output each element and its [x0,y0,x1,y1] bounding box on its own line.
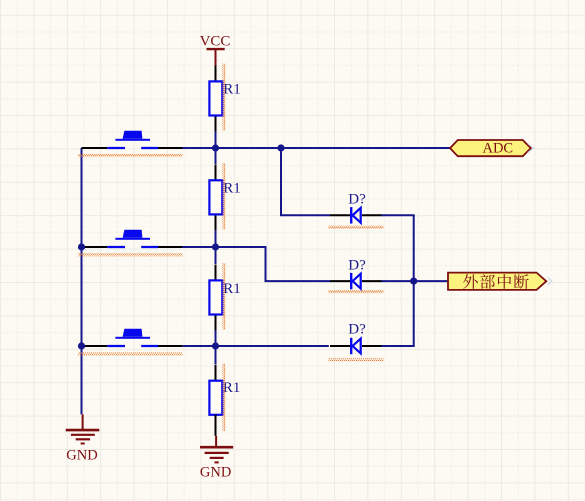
svg-text:VCC: VCC [200,33,231,49]
svg-text:D?: D? [348,322,366,338]
wire right rail (D1 to D3) [413,215,415,346]
push button S? (top) [82,131,216,148]
wire row3 node to R1d top [215,346,217,364]
port ADC [450,140,531,156]
ERC marker at middle diode [328,291,383,294]
svg-text:D?: D? [348,191,366,207]
port ADC direction chevron [528,144,534,153]
ERC marker at top diode [328,226,383,229]
push button S? (middle) [82,230,216,247]
junction row3-mid [212,342,219,349]
wire D2 out to junction [381,280,414,282]
ERC marker at R1 third [222,263,225,330]
junction right-rail [410,278,417,285]
wire row3 net to D3 [216,345,329,347]
svg-text:R1: R1 [223,281,241,297]
junction row2-mid [212,243,219,250]
port 外部中断 direction chevron [548,277,552,285]
diode D? (middle) [330,273,382,289]
wire row2 button to middle rail [158,246,216,248]
power symbol VCC [200,33,231,65]
wire junction to port 外部中断 [414,280,449,282]
ERC marker at R1 top [222,64,225,131]
wire D1 out to right rail [381,214,415,216]
ERC marker at middle button [78,253,183,256]
junction row1-mid [212,144,219,151]
ground GND (bottom) [200,436,233,481]
svg-text:D?: D? [348,257,366,273]
svg-text:GND: GND [200,465,231,481]
ERC marker at bottom diode [328,358,383,361]
ERC marker at R1 bottom [222,364,225,432]
junction row1-branch [277,144,284,151]
resistor R1 (top) [209,66,222,132]
junction row3-left [78,342,85,349]
wire row1 net to ADC [158,147,451,149]
wire R1c bottom to row3 node [215,331,217,347]
resistor R1 (second) [209,164,222,230]
svg-text:R1: R1 [223,180,241,196]
svg-text:R1: R1 [223,380,241,396]
wire row2 node to R1c top [215,247,217,264]
svg-text:GND: GND [66,448,97,464]
junction row2-left [78,243,85,250]
diode D? (top) [330,207,382,223]
port 外部中断 (external interrupt) [448,273,546,290]
wire R1a bottom to row1 node [215,132,217,149]
wire R1 bottom to GND [215,415,217,436]
resistor R1 (third) [209,265,222,331]
resistor R1 (bottom) [209,365,222,431]
wire D3 out to right rail [381,345,415,347]
wire R1b bottom to row2 node [215,231,217,248]
push button S? (bottom) [82,329,216,346]
ERC marker at bottom button [78,352,183,355]
wire row2 node to D2 feed [216,247,331,281]
svg-text:R1: R1 [223,82,241,98]
ground GND (left) [66,414,100,463]
wire row1 branch down to D1 [281,148,330,215]
ERC marker at R1 second [222,163,225,230]
ERC marker at top button [78,154,183,157]
wire left rail (buttons to GND) [81,148,83,414]
wire row1 node to R1b top [215,148,217,164]
diode D? (bottom) [330,338,382,354]
svg-text:ADC: ADC [482,140,513,156]
